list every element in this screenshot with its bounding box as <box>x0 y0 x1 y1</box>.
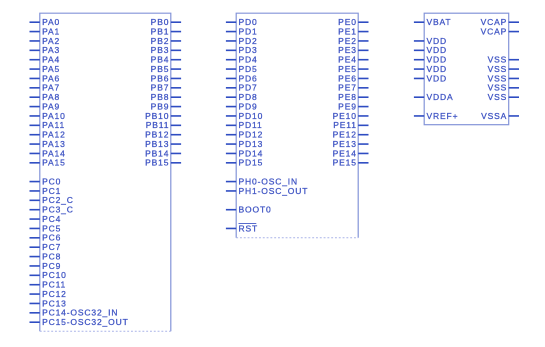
pin PB6 (39) <box>151 73 181 83</box>
pin PA11 (12) <box>30 120 66 130</box>
svg-text:VDDA: VDDA <box>427 92 454 102</box>
pin PB13 (46) <box>145 139 181 149</box>
pin PH1-OSC_OUT (66) <box>226 186 308 196</box>
pin VSS (98) <box>488 83 519 93</box>
pin PC15-OSC32_OUT (32) <box>30 317 129 327</box>
pin PD11 (60) <box>226 120 263 130</box>
pin PC3_C (20) <box>30 205 74 215</box>
svg-text:RST: RST <box>239 223 259 233</box>
pin PC10 (27) <box>30 270 67 280</box>
pin PD15 (64) <box>226 158 263 168</box>
pin PC12 (29) <box>30 289 67 299</box>
pin PD2 (51) <box>226 36 258 46</box>
pin PD4 (53) <box>226 55 258 65</box>
pin VSS (95) <box>488 55 519 65</box>
pin PA8 (9) <box>30 92 61 102</box>
pin PE7 (76) <box>338 83 368 93</box>
pin PE2 (71) <box>338 36 368 46</box>
pin PD14 (63) <box>226 148 263 158</box>
pin PC7 (24) <box>30 242 62 252</box>
svg-text:VREF+: VREF+ <box>427 111 459 121</box>
pin VCAP (94) <box>481 26 519 36</box>
pin VDD (87) <box>414 45 447 55</box>
pin VSSA (100) <box>481 111 519 121</box>
pin PC5 (22) <box>30 223 62 233</box>
pin VSS (99) <box>488 92 519 102</box>
pin PD1 (50) <box>226 26 258 36</box>
pin PD9 (58) <box>226 101 258 111</box>
pin PB3 (36) <box>151 45 181 55</box>
pin PB8 (41) <box>151 92 181 102</box>
pin VDD (88) <box>414 55 447 65</box>
pin PC9 (26) <box>30 261 62 271</box>
pin PC1 (18) <box>30 186 62 196</box>
MCU part A (port A/B/C) body <box>40 13 171 331</box>
pin PE8 (77) <box>338 92 368 102</box>
pin PD12 (61) <box>226 130 263 140</box>
pin PE3 (72) <box>338 45 368 55</box>
pin VREF+ (92) <box>414 111 458 121</box>
svg-text:VCAP: VCAP <box>481 26 508 36</box>
pin PA1 (2) <box>30 26 61 36</box>
pin PB9 (42) <box>151 101 181 111</box>
pin PA12 (13) <box>30 130 66 140</box>
pin PB7 (40) <box>151 83 181 93</box>
MCU part B (port D/E, boot/reset) body <box>236 13 358 238</box>
svg-text:PA15: PA15 <box>42 158 66 168</box>
svg-text:PD15: PD15 <box>239 158 264 168</box>
svg-text:VDD: VDD <box>427 73 448 83</box>
pin PE1 (70) <box>338 26 368 36</box>
pin PD0 (49) <box>226 17 258 27</box>
pin PA4 (5) <box>30 55 61 65</box>
pin VCAP (93) <box>481 17 519 27</box>
pin PE14 (83) <box>333 148 369 158</box>
pin PA13 (14) <box>30 139 66 149</box>
pin PA3 (4) <box>30 45 61 55</box>
svg-text:PE15: PE15 <box>333 158 357 168</box>
pin PE0 (69) <box>338 17 368 27</box>
pin PB2 (35) <box>151 36 181 46</box>
pin PE13 (82) <box>333 139 369 149</box>
pin PA0 (1) <box>30 17 61 27</box>
pin PA6 (7) <box>30 73 61 83</box>
svg-text:PH1-OSC_OUT: PH1-OSC_OUT <box>239 186 309 196</box>
pin PA2 (3) <box>30 36 61 46</box>
pin BOOT0 (67) <box>226 205 272 215</box>
pin PC4 (21) <box>30 214 62 224</box>
pin PA7 (8) <box>30 83 61 93</box>
pin PD3 (52) <box>226 45 258 55</box>
pin PC11 (28) <box>30 280 67 290</box>
pin PA5 (6) <box>30 64 61 74</box>
svg-text:PB15: PB15 <box>145 158 169 168</box>
pin VDD (90) <box>414 73 447 83</box>
pin PD5 (54) <box>226 64 258 74</box>
pin PB10 (43) <box>145 111 181 121</box>
pin VDD (86) <box>414 36 447 46</box>
pin PC13 (30) <box>30 298 67 308</box>
pin PE5 (74) <box>338 64 368 74</box>
svg-text:VBAT: VBAT <box>427 17 452 27</box>
pin PC0 (17) <box>30 176 62 186</box>
pin PE12 (81) <box>333 130 369 140</box>
pin PE15 (84) <box>333 158 369 168</box>
MCU part C (power) body <box>424 13 509 125</box>
pin PB14 (47) <box>145 148 181 158</box>
pin PD8 (57) <box>226 92 258 102</box>
pin PB15 (48) <box>145 158 181 168</box>
pin PB4 (37) <box>151 55 181 65</box>
pin PE11 (80) <box>333 120 368 130</box>
pin VBAT (85) <box>414 17 452 27</box>
pin PC8 (25) <box>30 251 62 261</box>
pin PH0-OSC_IN (65) <box>226 176 298 186</box>
pin PA15 (16) <box>30 158 66 168</box>
pin PD6 (55) <box>226 73 258 83</box>
pin PD7 (56) <box>226 83 258 93</box>
pin PE9 (78) <box>338 101 368 111</box>
pin PB12 (45) <box>145 130 181 140</box>
pin PD10 (59) <box>226 111 263 121</box>
pin PB11 (44) <box>146 120 181 130</box>
pin PB5 (38) <box>151 64 181 74</box>
pin PC2_C (19) <box>30 195 74 205</box>
pin PB0 (33) <box>151 17 181 27</box>
pin PA10 (11) <box>30 111 66 121</box>
svg-text:VSSA: VSSA <box>481 111 507 121</box>
pin PC14-OSC32_IN (31) <box>30 308 119 318</box>
pin VDDA (91) <box>414 92 454 102</box>
pin PE6 (75) <box>338 73 368 83</box>
pin VDD (89) <box>414 64 447 74</box>
pin VSS (96) <box>488 64 519 74</box>
svg-text:BOOT0: BOOT0 <box>239 205 272 215</box>
pin PA14 (15) <box>30 148 66 158</box>
pin PA9 (10) <box>30 101 61 111</box>
pin RST (68) <box>226 223 258 233</box>
pin PE10 (79) <box>333 111 369 121</box>
svg-text:VSS: VSS <box>488 92 508 102</box>
pin PD13 (62) <box>226 139 263 149</box>
pin PC6 (23) <box>30 233 62 243</box>
pin PE4 (73) <box>338 55 368 65</box>
pin PB1 (34) <box>151 26 181 36</box>
svg-text:PC15-OSC32_OUT: PC15-OSC32_OUT <box>42 317 129 327</box>
pin VSS (97) <box>488 73 519 83</box>
